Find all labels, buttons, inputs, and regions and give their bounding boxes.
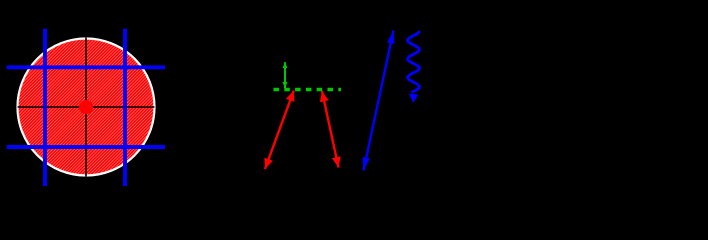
Raman beam right (red double arrow) xyxy=(322,91,339,168)
virtual level dashed line (green) xyxy=(274,88,342,92)
detuning double arrow (green) xyxy=(284,62,286,88)
crosshair vertical axis xyxy=(85,38,87,177)
excitation double arrow (blue) xyxy=(364,31,394,171)
emitted photon wavy line (blue) xyxy=(408,31,420,93)
Raman beam left (red double arrow) xyxy=(265,91,294,170)
center red dot xyxy=(79,100,93,114)
lattice beam horizontal top xyxy=(7,65,165,69)
photon arrowhead xyxy=(409,94,418,104)
lattice beam horizontal bottom xyxy=(7,145,165,149)
lattice beam vertical left xyxy=(43,29,47,186)
atom cloud (hatched circle) xyxy=(18,39,155,176)
lattice beam vertical right xyxy=(123,29,127,186)
crosshair horizontal axis xyxy=(18,106,155,108)
